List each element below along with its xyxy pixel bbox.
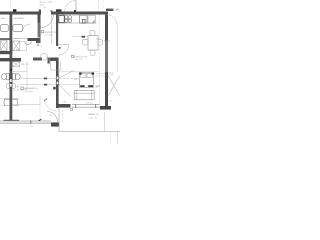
leader dash table bbox=[82, 36, 85, 38]
door arc hall-bottom bbox=[45, 99, 57, 111]
chair right bbox=[98, 39, 103, 45]
wall hall south bbox=[0, 58, 21, 61]
wire line y90 left bbox=[12, 89, 27, 91]
lower line second bbox=[0, 120, 51, 122]
party wall band bottom bbox=[0, 121, 51, 123]
wall right vertical lower bbox=[105, 72, 108, 106]
bidet right unit bbox=[13, 83, 16, 89]
wall top-right W2 bbox=[51, 12, 108, 15]
panel box upper on mid wall bbox=[56, 76, 59, 80]
hinge tick kitchen door bbox=[59, 47, 61, 49]
balcony right drop bbox=[117, 132, 119, 144]
switch box balcony wall bbox=[71, 108, 73, 110]
leader diag down bbox=[59, 85, 71, 97]
balcony inner edge bbox=[104, 112, 106, 132]
wall left party vertical bbox=[10, 15, 13, 121]
bathtub right unit bbox=[13, 25, 23, 32]
sofa arm left bbox=[76, 90, 78, 99]
lintel mark kitchen bbox=[56, 9, 62, 11]
svg-text:pow. 7,95: pow. 7,95 bbox=[89, 117, 97, 119]
svg-text:kan.: kan. bbox=[15, 38, 20, 40]
label bottom-left room bbox=[21, 87, 23, 89]
kitchen cabinet diag mark bbox=[93, 21, 95, 23]
full-width lower line bbox=[0, 122, 51, 124]
hall wardrobe lines bbox=[37, 23, 39, 39]
wire dashed interior right wall bbox=[98, 15, 100, 105]
leader line y84 bbox=[20, 84, 56, 86]
dashed vertical bottom mid bbox=[62, 110, 64, 124]
svg-text:2,2: 2,2 bbox=[14, 56, 17, 58]
window balcony-wall thin lines bbox=[72, 104, 100, 106]
label hall bbox=[42, 31, 44, 33]
leader horizontals right of wall bbox=[59, 77, 80, 79]
room boundary line left-bottom bbox=[26, 61, 28, 90]
wall left T-cap bottom bbox=[4, 120, 20, 123]
wall right vertical W3 bbox=[105, 15, 108, 41]
wall mid vertical lower bbox=[56, 58, 59, 109]
kitchen counter gap line bbox=[72, 14, 79, 16]
leader arrow dash 2 bbox=[44, 84, 47, 86]
wire dim dashed line top-left bbox=[10, 0, 12, 12]
pillow left bbox=[81, 74, 86, 78]
door circle wc bbox=[41, 53, 48, 60]
lintel mark left bbox=[13, 9, 16, 11]
chair left bbox=[83, 39, 88, 45]
bidet left unit bbox=[6, 83, 9, 89]
panel box upper on left wall bbox=[10, 79, 12, 82]
ceiling line bottom-left bbox=[12, 96, 40, 104]
wall balcony south seg bbox=[56, 104, 71, 108]
chair bottom bbox=[90, 50, 95, 55]
svg-text:90: 90 bbox=[41, 46, 43, 48]
door arc balcony top-right bbox=[107, 15, 118, 26]
svg-text:POKÓJ 17,95: POKÓJ 17,95 bbox=[75, 56, 89, 59]
shelf line right unit bbox=[12, 97, 20, 99]
small arrow mark bottom-left room bbox=[44, 98, 47, 101]
pillow right bbox=[87, 74, 92, 78]
kitchen fridge bbox=[59, 15, 64, 22]
kitchen cabinet bbox=[88, 15, 95, 23]
door arc corridor above bbox=[65, 0, 77, 11]
wall bath south left bbox=[0, 38, 10, 40]
niche lines mid bbox=[51, 61, 61, 70]
washbasin right unit bbox=[13, 99, 18, 105]
window-left leaders bbox=[96, 73, 105, 75]
kitchen stove burners bbox=[65, 16, 72, 23]
wire dim dashed lines right bbox=[98, 0, 100, 12]
door arc bottom-left room bbox=[47, 112, 58, 123]
door arc bathroom bbox=[22, 24, 31, 33]
bed bbox=[80, 73, 94, 88]
wall bath south corner bbox=[28, 38, 41, 41]
wall block bottom mid bbox=[51, 122, 59, 126]
svg-text:14,05: 14,05 bbox=[40, 2, 46, 4]
wall entry lower bbox=[38, 23, 41, 38]
balcony sill lines bbox=[108, 72, 113, 74]
svg-text:1,81: 1,81 bbox=[30, 126, 34, 128]
wall stub entry left bbox=[38, 15, 41, 23]
window right wall bbox=[105, 41, 108, 73]
dim marker diamond bbox=[39, 119, 42, 121]
bed foot dash left bbox=[80, 85, 84, 87]
svg-text:pow. 21,0: pow. 21,0 bbox=[75, 59, 83, 61]
svg-text:ŁAZ.: ŁAZ. bbox=[1, 17, 6, 20]
panel box lower on mid wall bbox=[56, 81, 59, 85]
hinge mark corridor bbox=[74, 10, 76, 12]
sofa bottom bbox=[74, 90, 94, 99]
leader diag up bbox=[59, 71, 74, 79]
dashed vertical bottom left bbox=[39, 105, 41, 122]
kitchen counter outline bbox=[58, 22, 96, 24]
shaft small below bbox=[13, 62, 20, 67]
leader line table bbox=[72, 36, 88, 38]
toilet left unit bbox=[1, 73, 9, 79]
svg-text:pow. 3,95: pow. 3,95 bbox=[45, 35, 53, 37]
svg-text:ŁAZIENKA: ŁAZIENKA bbox=[14, 17, 24, 20]
window mullion ticks bbox=[75, 104, 77, 108]
tiny marker top right bbox=[116, 8, 119, 11]
door arc kitchen bbox=[59, 45, 69, 55]
svg-text:TARAS 7,9: TARAS 7,9 bbox=[88, 113, 100, 116]
dining table bbox=[88, 36, 98, 50]
svg-text:ŁAZ.: ŁAZ. bbox=[96, 85, 101, 88]
svg-text:pow. 3,95: pow. 3,95 bbox=[25, 91, 33, 93]
hall east edge line bbox=[51, 15, 53, 45]
label living bbox=[72, 55, 74, 57]
jamb tick entry left bbox=[39, 10, 41, 12]
wall mid south dash bbox=[50, 58, 56, 61]
door leaf kitchen bbox=[59, 44, 69, 46]
door arc entry bbox=[41, 15, 54, 28]
dark mark left of mid wall bbox=[53, 87, 56, 90]
bathtub left unit bbox=[1, 25, 9, 32]
svg-text:ŁAZIENKA 3,9: ŁAZIENKA 3,9 bbox=[24, 87, 38, 90]
panel mark left wall low bbox=[10, 69, 12, 71]
jamb tick entry right bbox=[50, 10, 52, 12]
wall top-left W1 bbox=[0, 12, 41, 15]
wall hall south right dash bbox=[33, 58, 42, 61]
panel box lower on left wall bbox=[10, 84, 12, 87]
shaft right X bbox=[13, 41, 20, 51]
wire line y71 left bbox=[12, 70, 27, 72]
shaft left X bbox=[1, 41, 7, 51]
wall shaft south left bbox=[0, 51, 12, 54]
door leaf corridor bbox=[75, 1, 77, 12]
right rail line bbox=[117, 25, 119, 72]
washbasin bath small bbox=[25, 41, 32, 44]
svg-text:90: 90 bbox=[44, 7, 46, 9]
washbasin left unit bbox=[4, 99, 9, 105]
wire dim dashed line entry bbox=[39, 0, 41, 12]
balcony outline bbox=[59, 108, 120, 132]
window tick right wall bbox=[104, 40, 110, 42]
counter edge basins bbox=[0, 105, 10, 107]
bed corner mark left bbox=[79, 72, 81, 74]
leader arrow dash 1 bbox=[44, 78, 47, 80]
shaft right annex bbox=[20, 42, 27, 51]
wire line y71 right bbox=[59, 70, 100, 72]
lintel bar top right bbox=[106, 9, 113, 11]
wire bath south thin bbox=[12, 38, 27, 40]
shelf line left unit bbox=[0, 97, 10, 99]
leader line y78 bbox=[20, 77, 56, 79]
wall corner bottom-right cap bbox=[100, 106, 111, 110]
balcony X brace bbox=[108, 76, 119, 96]
tick hall bbox=[37, 44, 39, 46]
wall wc jamb bbox=[48, 58, 50, 64]
sofa back line bbox=[74, 92, 94, 94]
bed foot dash right bbox=[88, 85, 93, 87]
svg-text:1,95 2,0: 1,95 2,0 bbox=[86, 103, 93, 105]
wall kitchen divider bbox=[56, 15, 58, 47]
dashed vertical balcony right bbox=[110, 132, 112, 144]
band tick bbox=[30, 120, 31, 123]
bed corner mark right bbox=[92, 72, 94, 74]
sofa arm right bbox=[91, 90, 93, 99]
svg-text:WC 1,9: WC 1,9 bbox=[22, 64, 30, 66]
chair top bbox=[90, 31, 95, 36]
kitchen oven bbox=[80, 15, 87, 23]
toilet right unit bbox=[13, 73, 21, 79]
